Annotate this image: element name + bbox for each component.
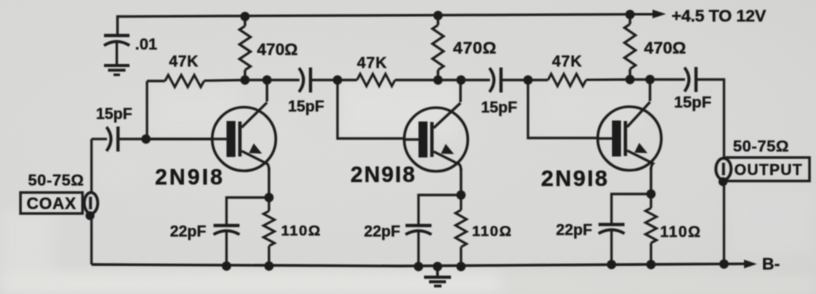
node emitter Q3 [646,189,655,198]
node top rail / R1 [240,12,249,21]
capacitor C1 .01 [104,36,130,65]
ground for C1 [104,66,130,75]
wire input vertical below jack down to ground rail [90,212,92,265]
svg-text:+4.5 TO 12V: +4.5 TO 12V [672,7,767,26]
wire base vertical stage 2 [338,80,406,139]
svg-text:50-75Ω: 50-75Ω [733,139,789,156]
node collector Q1 [262,75,271,84]
svg-text:22pF: 22pF [556,222,592,239]
node R7/R8 [625,75,634,84]
connector J1 COAX box [21,193,83,214]
B- arrow head [744,260,757,269]
resistor R6 110Ω (stage 2 emitter) [456,195,467,267]
node rail / ground [433,262,442,271]
wire emitter branch stage 3 [612,194,652,224]
wire collector node stage2 to C4 [438,79,490,81]
label +4.5 TO 12V [672,7,767,26]
transistor Q2 2N918 [404,80,468,195]
label C5 22pF [170,224,206,241]
node top rail / R7 [625,10,634,19]
wire collector node stage3 to C8 [630,78,685,80]
node rail / output [719,259,728,268]
transistor Q1 2N918 [146,80,276,198]
svg-text:50-75Ω: 50-75Ω [28,173,84,190]
node rail / C6 [414,262,423,271]
svg-text:470Ω: 470Ω [257,41,298,59]
label Q1 2N918 [155,165,225,190]
svg-text:2N9I8: 2N9I8 [155,165,225,190]
connector J1 COAX jack [84,193,97,214]
capacitor C3 15pF (interstage 1-2) [299,68,311,93]
svg-text:15pF: 15pF [96,106,132,123]
label R7 470Ω [644,39,686,58]
node emitter Q1 [264,193,273,202]
node collector Q3 [645,75,654,84]
connector J2 OUTPUT jack [716,158,731,179]
capacitor C5 22pF (stage 1 emitter bypass) [214,226,240,267]
wire bottom B- rail [92,264,746,266]
label R3 110Ω [281,223,321,240]
node base divider stage2 [333,75,342,84]
svg-text:OUTPUT: OUTPUT [734,162,803,179]
node below COAX jack [85,211,94,220]
wire C2 to base node Q1 [118,138,214,140]
node emitter Q2 [456,190,465,199]
node base divider stage3 [523,75,532,84]
svg-text:B-: B- [762,255,780,274]
label R8 47K [552,54,582,71]
node base Q1 [141,134,150,143]
label .01 [135,37,157,54]
resistor R8 47K (stage 3 feedback) [528,74,630,86]
svg-text:2N9I8: 2N9I8 [541,166,609,191]
resistor R1 470Ω (stage 1 collector load) [240,17,251,80]
label R1 470Ω [257,41,298,59]
svg-text:47K: 47K [169,54,199,71]
capacitor C6 22pF (stage 2 emitter bypass) [406,226,432,267]
label 50-75Ω (output) [733,139,789,156]
wire emitter branch stage 2 [419,195,462,225]
wire C4 to stage3 node [501,79,528,81]
node below OUTPUT jack [718,177,727,186]
svg-text:47K: 47K [357,55,387,72]
wire C2 left stub [92,138,108,140]
wire C3 to stage2 node [311,79,339,81]
svg-text:470Ω: 470Ω [453,39,497,58]
wire C8 to output corner [696,80,724,160]
svg-text:COAX: COAX [27,195,77,213]
label C8 15pF [674,95,712,112]
resistor R9 110Ω (stage 3 emitter) [646,194,657,265]
wire base vertical stage 1 [146,81,148,139]
node top rail / R4 [433,11,442,20]
svg-text:15pF: 15pF [288,99,324,116]
resistor R7 470Ω (stage 3 collector load) [625,15,636,80]
resistor R5 47K (stage 2 feedback) [338,74,438,86]
label B- [762,255,780,274]
label Q2 2N918 [351,162,417,187]
label C3 15pF [288,99,324,116]
label Q3 2N918 [541,166,609,191]
svg-text:22pF: 22pF [364,224,400,241]
transistor Q3 2N918 [598,80,662,194]
label 50-75Ω (input) [28,173,84,190]
label C6 22pF [364,224,400,241]
capacitor C2 15pF (input coupling) [107,127,119,152]
node R4/R5 [433,75,442,84]
connector J2 OUTPUT box [727,158,810,182]
resistor R3 110Ω (stage 1 emitter) [264,198,275,267]
label R6 110Ω [472,223,512,240]
wire top supply rail [118,14,656,35]
svg-text:110Ω: 110Ω [660,224,701,241]
label C7 22pF [556,222,592,239]
svg-text:110Ω: 110Ω [472,223,512,240]
label R9 110Ω [660,224,701,241]
label C2 15pF [96,106,132,123]
wire input vertical from COAX jack up to C2 [90,139,92,194]
capacitor C7 22pF (stage 3 emitter bypass) [599,225,625,265]
label C4 15pF [481,100,517,117]
svg-text:15pF: 15pF [674,95,712,112]
wire collector node to coupling cap stage1 [245,79,300,81]
svg-text:110Ω: 110Ω [281,223,321,240]
wire base vertical stage 3 [528,80,598,138]
capacitor C4 15pF (interstage 2-3) [490,68,502,93]
node rail / C5 [222,261,231,270]
resistor R4 470Ω (stage 2 collector load) [433,16,444,81]
node rail / R3 [264,261,273,270]
power arrow head [653,10,667,19]
ground (main, below rail) [424,267,451,287]
node rail / R6 [456,262,465,271]
svg-text:15pF: 15pF [481,100,517,117]
svg-text:.01: .01 [135,37,157,54]
node R1/R2/collector wire [240,75,249,84]
node rail / C7 [607,260,616,269]
svg-text:47K: 47K [552,54,582,71]
wire emitter branch stage 1 [227,198,270,226]
svg-text:470Ω: 470Ω [644,39,686,58]
svg-text:22pF: 22pF [170,224,206,241]
resistor R2 47K (stage 1 feedback) [147,75,245,87]
label R2 47K [169,54,199,71]
label R4 470Ω [453,39,497,58]
node rail / R9 [646,260,655,269]
svg-text:2N9I8: 2N9I8 [351,162,417,187]
node collector Q2 [456,75,465,84]
wire output vertical [723,158,725,264]
capacitor C8 15pF (output coupling) [685,67,697,92]
label R5 47K [357,55,387,72]
